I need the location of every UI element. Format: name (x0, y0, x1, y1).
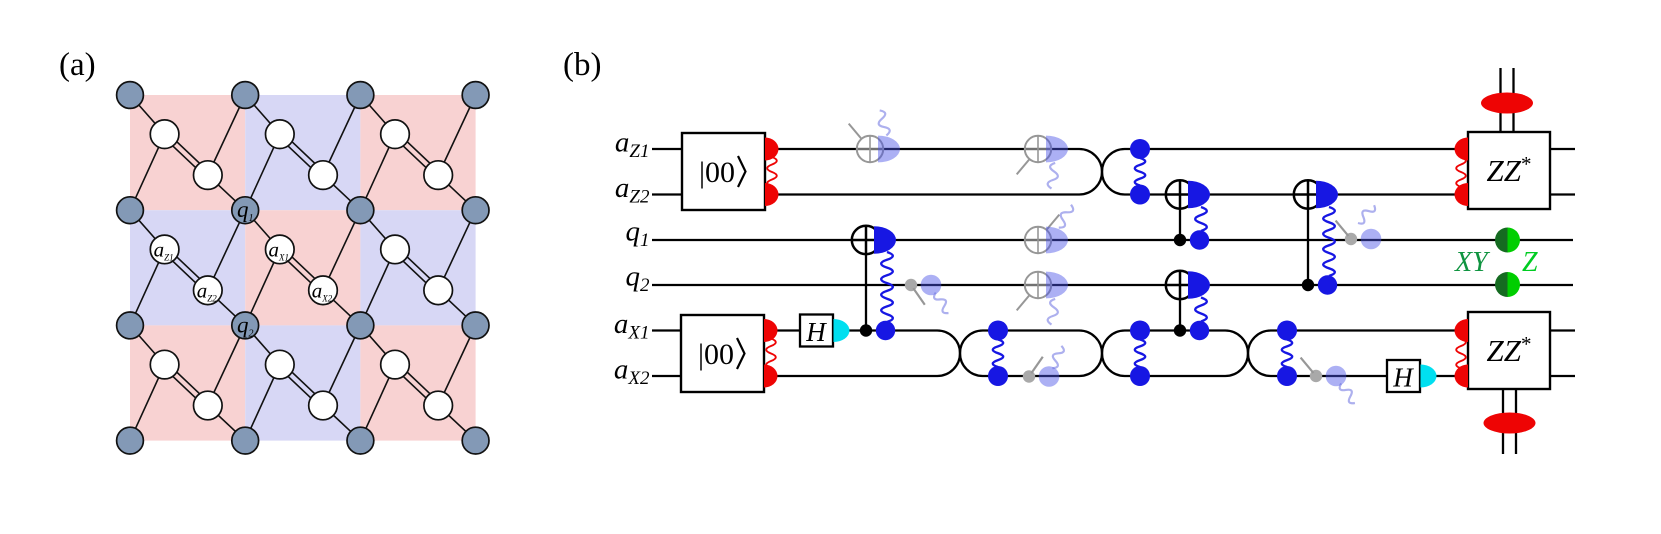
CNOT C2 (target aZ2, control q1) vertical line (1179, 195, 1181, 241)
ghost control-dot G6 on aX2 (stadium edge) (1023, 346, 1064, 387)
CNOT C2 (target aZ2, control q1) blue half-disc at target (1188, 181, 1210, 209)
CNOT C3 (target aZ2, control q2) blue disc at control (1318, 275, 1337, 294)
CNOT C1 (target q1, control aX1) blue disc at control (876, 321, 895, 340)
cyan detector after H right (1421, 365, 1437, 388)
blue disc pair P2 (aZ link) wavy (1135, 158, 1145, 186)
gate H left (aX1) (800, 315, 833, 348)
svg-text:|00: |00 (699, 156, 735, 189)
label q2 (626, 261, 651, 297)
label Z (green) (1522, 247, 1538, 278)
panel label (b) (563, 47, 601, 83)
svg-text:aX1: aX1 (614, 308, 650, 344)
label aZ1 (615, 127, 650, 163)
svg-text:aZ1: aZ1 (615, 127, 650, 163)
green measure dot on q2 (1495, 272, 1520, 297)
CNOT C3 (target aZ2, control q2) vertical line (1307, 195, 1309, 286)
svg-text:H: H (1392, 363, 1414, 393)
lattice double bonds (163, 132, 441, 408)
label aZ2 (615, 172, 650, 208)
CNOT C2 (target aZ2, control q1) control dot (1174, 234, 1186, 246)
label XY (green) (1454, 247, 1491, 278)
blue disc pair P1 (aX stadium 2) bottom (988, 366, 1008, 386)
gate H right (aX2) (1387, 360, 1420, 393)
box |00> prep (aX) (681, 315, 764, 392)
CNOT C4 (target q2, control aX1) blue disc at control (1190, 321, 1209, 340)
CNOT C3 (target aZ2, control q2) control dot (1302, 279, 1314, 291)
ghost CNOT-target G2 on aZ1 (late) (1017, 136, 1068, 189)
wire q2 (652, 284, 1573, 286)
wire aX stadium link 2 (960, 331, 1102, 377)
CNOT C2 (target aZ2, control q1) blue disc at control (1190, 230, 1209, 249)
CNOT C1 (target q1, control aX1) vertical line (865, 240, 867, 331)
wire aX1 output stub (1550, 329, 1575, 331)
svg-text:XY: XY (1454, 247, 1491, 278)
lattice plaquettes (checkerboard) (130, 95, 476, 441)
ghost control-dot G5 on q2 (905, 275, 949, 313)
CNOT C4 (target q2, control aX1) target on wire (1166, 271, 1194, 299)
red emitter aZ2 (765, 183, 779, 206)
svg-text:Z: Z (1522, 247, 1538, 278)
blue disc pair P4 (aX right link) wavy (1282, 340, 1292, 368)
svg-text:(b): (b) (563, 47, 601, 83)
blue disc pair P3 (aX stadium 3) top (1130, 321, 1150, 341)
wire aZ1 input stub (652, 148, 684, 150)
CNOT C4 (target q2, control aX1) vertical line (1179, 285, 1181, 331)
red emitter aX1 (764, 319, 778, 342)
box ZZ* bottom (aX pair) (1468, 312, 1550, 389)
panel label (a) (59, 47, 96, 83)
blue disc pair P2 (aZ link) bottom (1130, 185, 1150, 205)
wire q1 (652, 239, 1573, 241)
ghost control-dot G7 on q1 (late) (1336, 205, 1382, 249)
label aX1 (614, 308, 650, 344)
CNOT C4 (target q2, control aX1) control dot (1174, 324, 1186, 336)
CNOT C2 (target aZ2, control q1) blue wavy photon line (1195, 207, 1207, 231)
wire aZ2 output stub (1550, 193, 1575, 195)
blue disc pair P2 (aZ link) top (1130, 139, 1150, 159)
CNOT C1 (target q1, control aX1) target on wire (852, 226, 880, 254)
blue disc pair P1 (aX stadium 2) top (988, 321, 1008, 341)
wire aX pair left link (764, 331, 960, 377)
red absorber aZ2 (1455, 183, 1469, 206)
double line above ZZ* top (1501, 68, 1514, 132)
CNOT C4 (target q2, control aX1) blue half-disc at target (1188, 271, 1210, 299)
wire aX2 output stub (1550, 375, 1575, 377)
ghost CNOT-target G4 on q2 (1017, 272, 1068, 325)
svg-text:aZ2: aZ2 (615, 172, 650, 208)
lattice gray vertex circles (117, 82, 489, 454)
CNOT C3 (target aZ2, control q2) blue half-disc at target (1316, 181, 1338, 209)
svg-text:|00: |00 (698, 338, 734, 371)
red wavy aX prep (766, 339, 776, 369)
red emitter aX2 (764, 365, 778, 388)
CNOT C3 (target aZ2, control q2) blue wavy photon line (1323, 207, 1335, 276)
wire aX pair right link (1248, 331, 1468, 377)
node aZ1 label (154, 237, 174, 262)
red absorber aZ1 (1455, 138, 1469, 161)
red wavy ZZ* top (1456, 157, 1466, 187)
wire aZ1 output stub (1550, 148, 1575, 150)
node q1 label (237, 197, 254, 224)
red wavy aZ prep (767, 157, 777, 187)
red absorber aX2 (1455, 365, 1469, 388)
green measure dot on q1 (1495, 227, 1520, 252)
CNOT C1 (target q1, control aX1) blue half-disc at target (874, 226, 896, 254)
blue disc pair P4 (aX right link) top (1277, 321, 1297, 341)
red ellipse above ZZ* top (1481, 93, 1533, 114)
node aZ2 label (197, 278, 218, 303)
node aX2 label (312, 278, 333, 303)
node aX1 label (269, 237, 290, 262)
blue disc pair P3 (aX stadium 3) wavy (1135, 340, 1145, 368)
wire aX2 input stub (652, 375, 683, 377)
CNOT C4 (target q2, control aX1) blue wavy photon line (1195, 298, 1207, 322)
CNOT C1 (target q1, control aX1) control dot (860, 324, 872, 336)
red emitter aZ1 (765, 138, 779, 161)
blue disc pair P1 (aX stadium 2) wavy (993, 340, 1003, 368)
label aX2 (614, 354, 650, 390)
svg-text:(a): (a) (59, 47, 96, 83)
red ellipse below ZZ* bottom (1484, 413, 1536, 434)
lattice bond edges (130, 95, 476, 441)
CNOT C3 (target aZ2, control q2) target on wire (1294, 180, 1322, 208)
wire aZ pair left link with crossing (765, 149, 1102, 195)
cyan detector after H left (834, 319, 850, 342)
svg-text:aX2: aX2 (614, 354, 650, 390)
blue disc pair P3 (aX stadium 3) bottom (1130, 366, 1150, 386)
svg-text:H: H (805, 317, 827, 347)
blue disc pair P4 (aX right link) bottom (1277, 366, 1297, 386)
red absorber aX1 (1455, 319, 1469, 342)
double line below ZZ* bottom (1503, 390, 1516, 454)
CNOT C1 (target q1, control aX1) blue wavy photon line (881, 252, 893, 322)
wire aX1 input stub (652, 329, 683, 331)
label q1 (626, 216, 650, 252)
wire aZ pair right link (1102, 149, 1468, 195)
ghost CNOT-target G3 on q1 (1025, 205, 1073, 254)
wire aZ2 input stub (652, 193, 684, 195)
box ZZ* top (aZ pair) (1468, 132, 1550, 209)
CNOT C2 (target aZ2, control q1) target on wire (1166, 180, 1194, 208)
wire aX stadium link 3 (1102, 331, 1248, 377)
lattice white site circles (150, 120, 452, 420)
svg-text:q2: q2 (626, 261, 651, 297)
svg-text:q1: q1 (626, 216, 650, 252)
box |00> prep (aZ) (682, 133, 765, 210)
ghost control-dot G8 on aX2 (late) (1301, 358, 1355, 404)
node q2 label (237, 312, 254, 339)
red wavy ZZ* bottom (1456, 339, 1466, 369)
ghost CNOT-target G1 on aZ1 (849, 110, 900, 162)
